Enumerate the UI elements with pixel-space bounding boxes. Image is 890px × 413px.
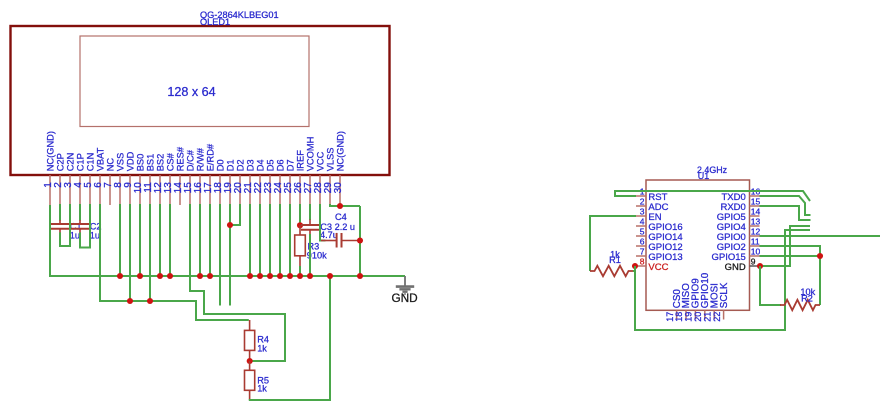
OLED pin 26 IREF (stub, number, name) (293, 150, 306, 205)
svg-text:4: 4 (640, 217, 645, 227)
wire C3 bottom to ground bus (309, 234, 311, 277)
OLED pin 15 D/C# (stub, number, name) (183, 149, 196, 205)
ESP pin 16 TXD0 (stub, number, name) (722, 187, 761, 203)
capacitor C3 (301, 220, 320, 236)
junction dot R5 return at ground bus (327, 273, 333, 279)
junction dot R3 bottom at ground bus (297, 273, 303, 279)
svg-text:6: 6 (640, 237, 645, 247)
ESP pin 8 VCC (stub, number, name) (636, 257, 669, 273)
wire GND pin9 to wrap end (760, 226, 811, 266)
OLED pin 10 BS0 (stub, number, name) (133, 154, 146, 205)
svg-text:VCC: VCC (316, 151, 326, 171)
junction dot pin24 D6 at ground bus (277, 273, 283, 279)
ESP pin 5 GPIO14 (stub, number, name) (636, 227, 683, 243)
svg-text:NC: NC (106, 158, 116, 172)
junction dot pin12 BS2 at ground bus (157, 273, 163, 279)
svg-text:2.2 u: 2.2 u (335, 222, 355, 232)
OLED pin 24 D6 (stub, number, name) (273, 159, 286, 205)
wire pin2 down to C1 (59, 204, 61, 221)
ground bus wire (49, 275, 405, 277)
OLED pin 22 D4 (stub, number, name) (253, 159, 266, 205)
svg-text:1u: 1u (70, 231, 80, 241)
svg-text:128 x 64: 128 x 64 (167, 85, 215, 99)
OLED pin 1 NC(GND) (stub, number, name) (43, 131, 56, 205)
junction dot R4/R5 (247, 358, 253, 364)
wire pin23 D5 to ground bus (269, 204, 271, 277)
svg-text:C2P: C2P (56, 153, 66, 171)
wire RXD0 wrap line (760, 206, 811, 220)
svg-text:CS#: CS# (166, 152, 176, 171)
svg-text:12: 12 (751, 227, 761, 237)
wire TXD0 wrap line (760, 196, 811, 215)
svg-text:1k: 1k (257, 343, 267, 353)
resistor R2 (780, 300, 820, 310)
wire pin6 VBAT down to power rail (100, 204, 196, 301)
ESP pin 7 GPIO13 (stub, number, name) (636, 247, 683, 263)
OLED pin 8 VSS (stub, number, name) (113, 153, 126, 205)
ESP pin 10 GPIO15 (stub, number, name) (711, 247, 760, 263)
OLED pin 7 NC (stub, number, name) (103, 158, 116, 205)
wire pin26 IREF down to R3 (299, 204, 301, 226)
ground symbol stub (404, 276, 406, 286)
svg-text:D1: D1 (226, 159, 236, 171)
svg-text:3: 3 (640, 207, 645, 217)
OLED pin 23 D5 (stub, number, name) (263, 159, 276, 205)
wire pin29 VLSS to pin30 and gnd drop (330, 205, 360, 207)
svg-text:C1P: C1P (76, 153, 86, 171)
svg-text:IREF: IREF (296, 150, 306, 171)
junction dot C4 right (357, 237, 363, 243)
capacitor C1 (51, 220, 69, 233)
wire pin27 VCOMH down to C3 (309, 204, 311, 220)
svg-text:D3: D3 (246, 159, 256, 171)
OLED display OLED1 outline (11, 26, 390, 175)
wire pin22 D4 to ground bus (259, 204, 261, 277)
svg-text:14: 14 (751, 207, 761, 217)
OLED pin 12 BS2 (stub, number, name) (153, 154, 166, 205)
svg-text:R2: R2 (801, 293, 813, 303)
svg-text:13: 13 (751, 217, 761, 227)
svg-text:9: 9 (751, 257, 756, 267)
wire pin25 D7 to ground bus (289, 204, 291, 277)
wire R5 bottom return to ground bus (249, 275, 330, 400)
svg-text:R/W#: R/W# (196, 147, 206, 171)
svg-text:D7: D7 (286, 159, 296, 171)
OLED pin 4 C1P (stub, number, name) (73, 153, 86, 205)
wire C2 bottom U-turn to pin5 (80, 204, 90, 248)
wire RST wrap line (615, 191, 810, 201)
wire pin20 D2 jog to pin19 (231, 204, 240, 225)
ESP pin 11 GPIO2 (stub, number, name) (717, 237, 760, 253)
wire pin1 down to ground bus (49, 205, 51, 277)
junction dot pin21 D3 at ground bus (247, 273, 253, 279)
resistor R1 (590, 266, 633, 276)
wire pin8 VSS to ground bus (119, 204, 121, 277)
wire VCC big loop to wrap end (635, 230, 810, 330)
svg-text:VLSS: VLSS (326, 148, 336, 172)
svg-text:C2N: C2N (66, 153, 76, 172)
svg-text:22: 22 (712, 312, 722, 322)
wire pin18 D0 dangling (219, 204, 221, 306)
ESP pin 12 GPIO0 (stub, number, name) (717, 227, 761, 243)
svg-text:VDD: VDD (126, 151, 136, 171)
OLED pin 29 VLSS (stub, number, name) (323, 148, 336, 205)
ESP pin 1 RST (stub, number, name) (636, 187, 668, 203)
OLED pin 25 D7 (stub, number, name) (283, 159, 296, 205)
junction dot VCC pin8 (632, 263, 638, 269)
OLED pin 3 C2N (stub, number, name) (63, 153, 76, 205)
OLED pin 6 VBAT (stub, number, name) (93, 147, 106, 205)
svg-text:15: 15 (751, 197, 761, 207)
wire pin17 E/RD# to ground bus (209, 204, 211, 277)
wire pin13 CS# to ground bus (169, 204, 171, 277)
ESP pin 22 SCLK (stub, number, name) (712, 282, 730, 322)
svg-text:OLED1: OLED1 (200, 17, 230, 27)
svg-text:2: 2 (640, 197, 645, 207)
svg-text:D0: D0 (216, 159, 226, 171)
svg-text:1k: 1k (257, 383, 267, 393)
svg-text:30: 30 (333, 182, 344, 194)
junction dot IREF/R3 (297, 222, 303, 228)
junction dot pin8 VSS at ground bus (117, 273, 123, 279)
junction dot pin10 BS0 at ground bus (137, 273, 143, 279)
wire pin12 BS2 to ground bus (159, 204, 161, 277)
svg-text:11: 11 (751, 237, 760, 247)
junction dot GPIO2/GPIO15 (817, 253, 823, 259)
wire GPIO2 to GPIO15 (760, 246, 821, 256)
svg-text:RES#: RES# (176, 146, 186, 171)
svg-text:D5: D5 (266, 159, 276, 171)
junction dot GND pin9 (757, 263, 763, 269)
wire pin10 BS0 to ground bus (139, 204, 141, 277)
ESP pin 18 MISO (stub, number, name) (674, 283, 692, 322)
wire pin21 D3 to ground bus (249, 204, 251, 277)
junction dot C3 bottom at ground bus (307, 273, 313, 279)
junction dot BS1 at power rail (147, 298, 153, 304)
svg-text:NC(GND): NC(GND) (46, 131, 56, 171)
junction dot pin16 R/W# at ground bus (197, 273, 203, 279)
svg-text:SCLK: SCLK (719, 282, 730, 308)
wire R1 right to VCC (633, 266, 635, 271)
svg-text:5: 5 (640, 227, 645, 237)
svg-text:D/C#: D/C# (186, 149, 196, 171)
OLED pin 28 VCC (stub, number, name) (313, 151, 326, 205)
junction dot pin13 CS# at ground bus (167, 273, 173, 279)
junction dot pin17 E/RD# at ground bus (207, 273, 213, 279)
ESP pin 14 GPIO5 (stub, number, name) (717, 207, 761, 223)
svg-text:BS1: BS1 (146, 154, 156, 172)
wire R3 bottom to ground bus (299, 266, 301, 277)
junction dot pin25 D7 at ground bus (287, 273, 293, 279)
svg-text:8: 8 (640, 257, 645, 267)
svg-text:C1N: C1N (86, 153, 96, 172)
OLED pin 17 E/RD# (stub, number, name) (203, 143, 216, 205)
svg-text:E/RD#: E/RD# (206, 143, 216, 171)
OLED pin 19 D1 (stub, number, name) (223, 159, 236, 205)
junction dot pin30 NC(GND) (337, 203, 343, 209)
ESP pin 19 GPIO9 (stub, number, name) (684, 278, 702, 321)
wire pin4 down to C2 (79, 204, 81, 221)
OLED screen inner rectangle (80, 36, 309, 127)
ESP pin 20 GPIO10 (stub, number, name) (693, 272, 711, 321)
svg-text:R1: R1 (609, 255, 621, 265)
OLED pin 27 VCOMH (stub, number, name) (303, 137, 316, 205)
ESP pin 15 RXD0 (stub, number, name) (720, 197, 760, 213)
svg-text:NC(GND): NC(GND) (336, 131, 346, 171)
svg-text:VSS: VSS (116, 153, 126, 172)
OLED pin 9 VDD (stub, number, name) (123, 151, 136, 205)
ESP pin 21 MOSI (stub, number, name) (702, 283, 720, 322)
OLED pin 13 CS# (stub, number, name) (163, 152, 176, 205)
wire pin15 D/C# staircase to R4/R5 junction (190, 204, 285, 361)
wire pin19 D1 dangling (229, 204, 231, 306)
OLED pin 20 D2 (stub, number, name) (233, 159, 246, 205)
OLED pin 16 R/W# (stub, number, name) (193, 147, 206, 205)
svg-text:D6: D6 (276, 159, 286, 171)
ESP pin 9 GND (stub, number, name) (725, 257, 760, 273)
ESP pin 2 ADC (stub, number, name) (636, 197, 669, 213)
svg-text:1u: 1u (90, 231, 100, 241)
svg-text:VCC: VCC (648, 262, 668, 273)
wire pin29 stub tip (329, 204, 331, 207)
ground symbol (396, 287, 414, 294)
svg-text:10: 10 (751, 247, 761, 257)
OLED pin 30 NC(GND) (stub, number, name) (333, 131, 346, 205)
junction dot D1/D2 (227, 222, 233, 228)
junction dot gnd drop at bus (357, 273, 363, 279)
ESP pin 13 GPIO4 (stub, number, name) (717, 217, 761, 233)
ESP pin 3 EN (stub, number, name) (636, 207, 662, 223)
wire GND pin9 down to R2 left (760, 266, 781, 305)
svg-text:GND: GND (725, 262, 746, 273)
OLED pin 21 D3 (stub, number, name) (243, 159, 256, 205)
ESP module U1 outline (646, 180, 750, 310)
wire pin16 R/W# to ground bus (199, 204, 201, 277)
wire EN down to R1 (590, 216, 636, 271)
svg-text:BS2: BS2 (156, 154, 166, 172)
junction dot pin23 D5 at ground bus (267, 273, 273, 279)
junction dot pin22 D4 at ground bus (257, 273, 263, 279)
svg-text:U1: U1 (698, 171, 709, 181)
wire GPIO0 long line (760, 235, 881, 237)
svg-text:VBAT: VBAT (96, 147, 106, 171)
wire gnd drop vertical x360 (359, 206, 361, 277)
ESP pin 17 CS0 (stub, number, name) (665, 289, 683, 322)
svg-text:D4: D4 (256, 159, 266, 171)
resistor R3 (295, 225, 306, 267)
ESP pin 6 GPIO12 (stub, number, name) (636, 237, 683, 253)
wire GPIO15 to R2 right (760, 256, 821, 305)
svg-text:BS0: BS0 (136, 154, 146, 172)
capacitor C2 (71, 220, 89, 233)
OLED pin 11 BS1 (stub, number, name) (143, 154, 156, 205)
svg-text:GND: GND (391, 291, 417, 305)
svg-text:D2: D2 (236, 159, 246, 171)
svg-text:7: 7 (640, 247, 645, 257)
svg-text:C4: C4 (335, 212, 347, 222)
OLED pin 2 C2P (stub, number, name) (53, 153, 66, 205)
OLED pin 14 RES# (stub, number, name) (173, 146, 186, 205)
wire pin24 D6 to ground bus (279, 204, 281, 277)
capacitor C4 (321, 233, 358, 248)
svg-text:VCOMH: VCOMH (306, 137, 316, 172)
OLED pin 18 D0 (stub, number, name) (213, 159, 226, 205)
ESP pin 4 GPIO16 (stub, number, name) (636, 217, 683, 233)
wire C1 bottom U-turn to pin3 (60, 204, 70, 246)
wire pin11 BS1 to power rail (149, 204, 151, 302)
wire pin28 VCC down to C4 (320, 204, 326, 241)
wire pin9 VDD to power rail (129, 204, 131, 302)
OLED pin 5 C1N (stub, number, name) (83, 153, 96, 205)
resistor R4 (245, 320, 255, 362)
wire power rail to R4 top (196, 300, 249, 320)
junction dot VDD at power rail (127, 298, 133, 304)
resistor R5 (245, 361, 255, 400)
